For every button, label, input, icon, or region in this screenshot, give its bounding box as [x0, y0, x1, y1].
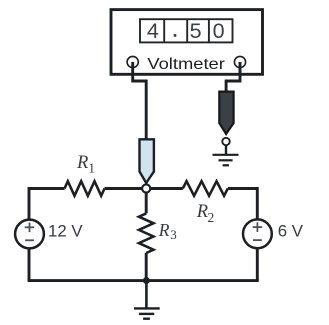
bottom wire [28, 279, 259, 282]
6V minus sign [253, 239, 262, 241]
wire R2 to top-right corner down to 6V source [228, 189, 257, 220]
display decimal point [174, 34, 177, 37]
blue probe [140, 139, 154, 183]
wire node to R2 [150, 187, 183, 190]
voltage source 12V [15, 220, 44, 249]
wire 6V source to bottom wire [256, 248, 259, 280]
svg-text:R: R [196, 202, 208, 222]
svg-text:12 V: 12 V [48, 222, 83, 241]
12V minus sign [25, 239, 34, 241]
svg-text:0: 0 [213, 19, 225, 43]
wire 12V source to bottom wire [28, 249, 31, 281]
6V plus sign [253, 222, 263, 232]
svg-text:3: 3 [170, 227, 177, 242]
ground (voltmeter reference) [213, 155, 239, 166]
wire junction to ground [145, 281, 148, 309]
ground (circuit reference) [134, 308, 160, 318]
svg-text:Voltmeter: Voltmeter [147, 55, 225, 72]
svg-text:2: 2 [208, 210, 215, 225]
voltmeter display frame [140, 19, 233, 42]
resistor R2 [183, 181, 228, 196]
wire probe circle to ground [225, 145, 227, 155]
wire right terminal to dark probe [226, 62, 240, 92]
wire R1 to node [105, 187, 143, 190]
resistor R1 [65, 181, 105, 196]
right terminal [234, 56, 245, 67]
resistor R3 [139, 213, 154, 253]
wire left terminal to blue probe [133, 62, 147, 139]
dark probe node circle [222, 138, 229, 145]
wire node down to R3 [145, 193, 148, 214]
svg-text:R: R [76, 153, 88, 173]
svg-text:1: 1 [88, 160, 95, 175]
wire top-left: corner to R1 [29, 189, 65, 220]
dark probe [219, 92, 233, 134]
wire R3 to bottom wire [145, 253, 148, 281]
svg-text:4: 4 [147, 19, 159, 43]
svg-text:R: R [158, 220, 170, 240]
voltmeter box [111, 10, 263, 75]
node A (measured node, white junction) [142, 184, 150, 192]
voltage source 6V [243, 219, 272, 248]
12V plus sign [25, 223, 35, 233]
left terminal [127, 56, 138, 67]
svg-text:6 V: 6 V [278, 222, 304, 241]
svg-text:5: 5 [190, 19, 202, 43]
junction dot (bottom node) [143, 277, 150, 284]
